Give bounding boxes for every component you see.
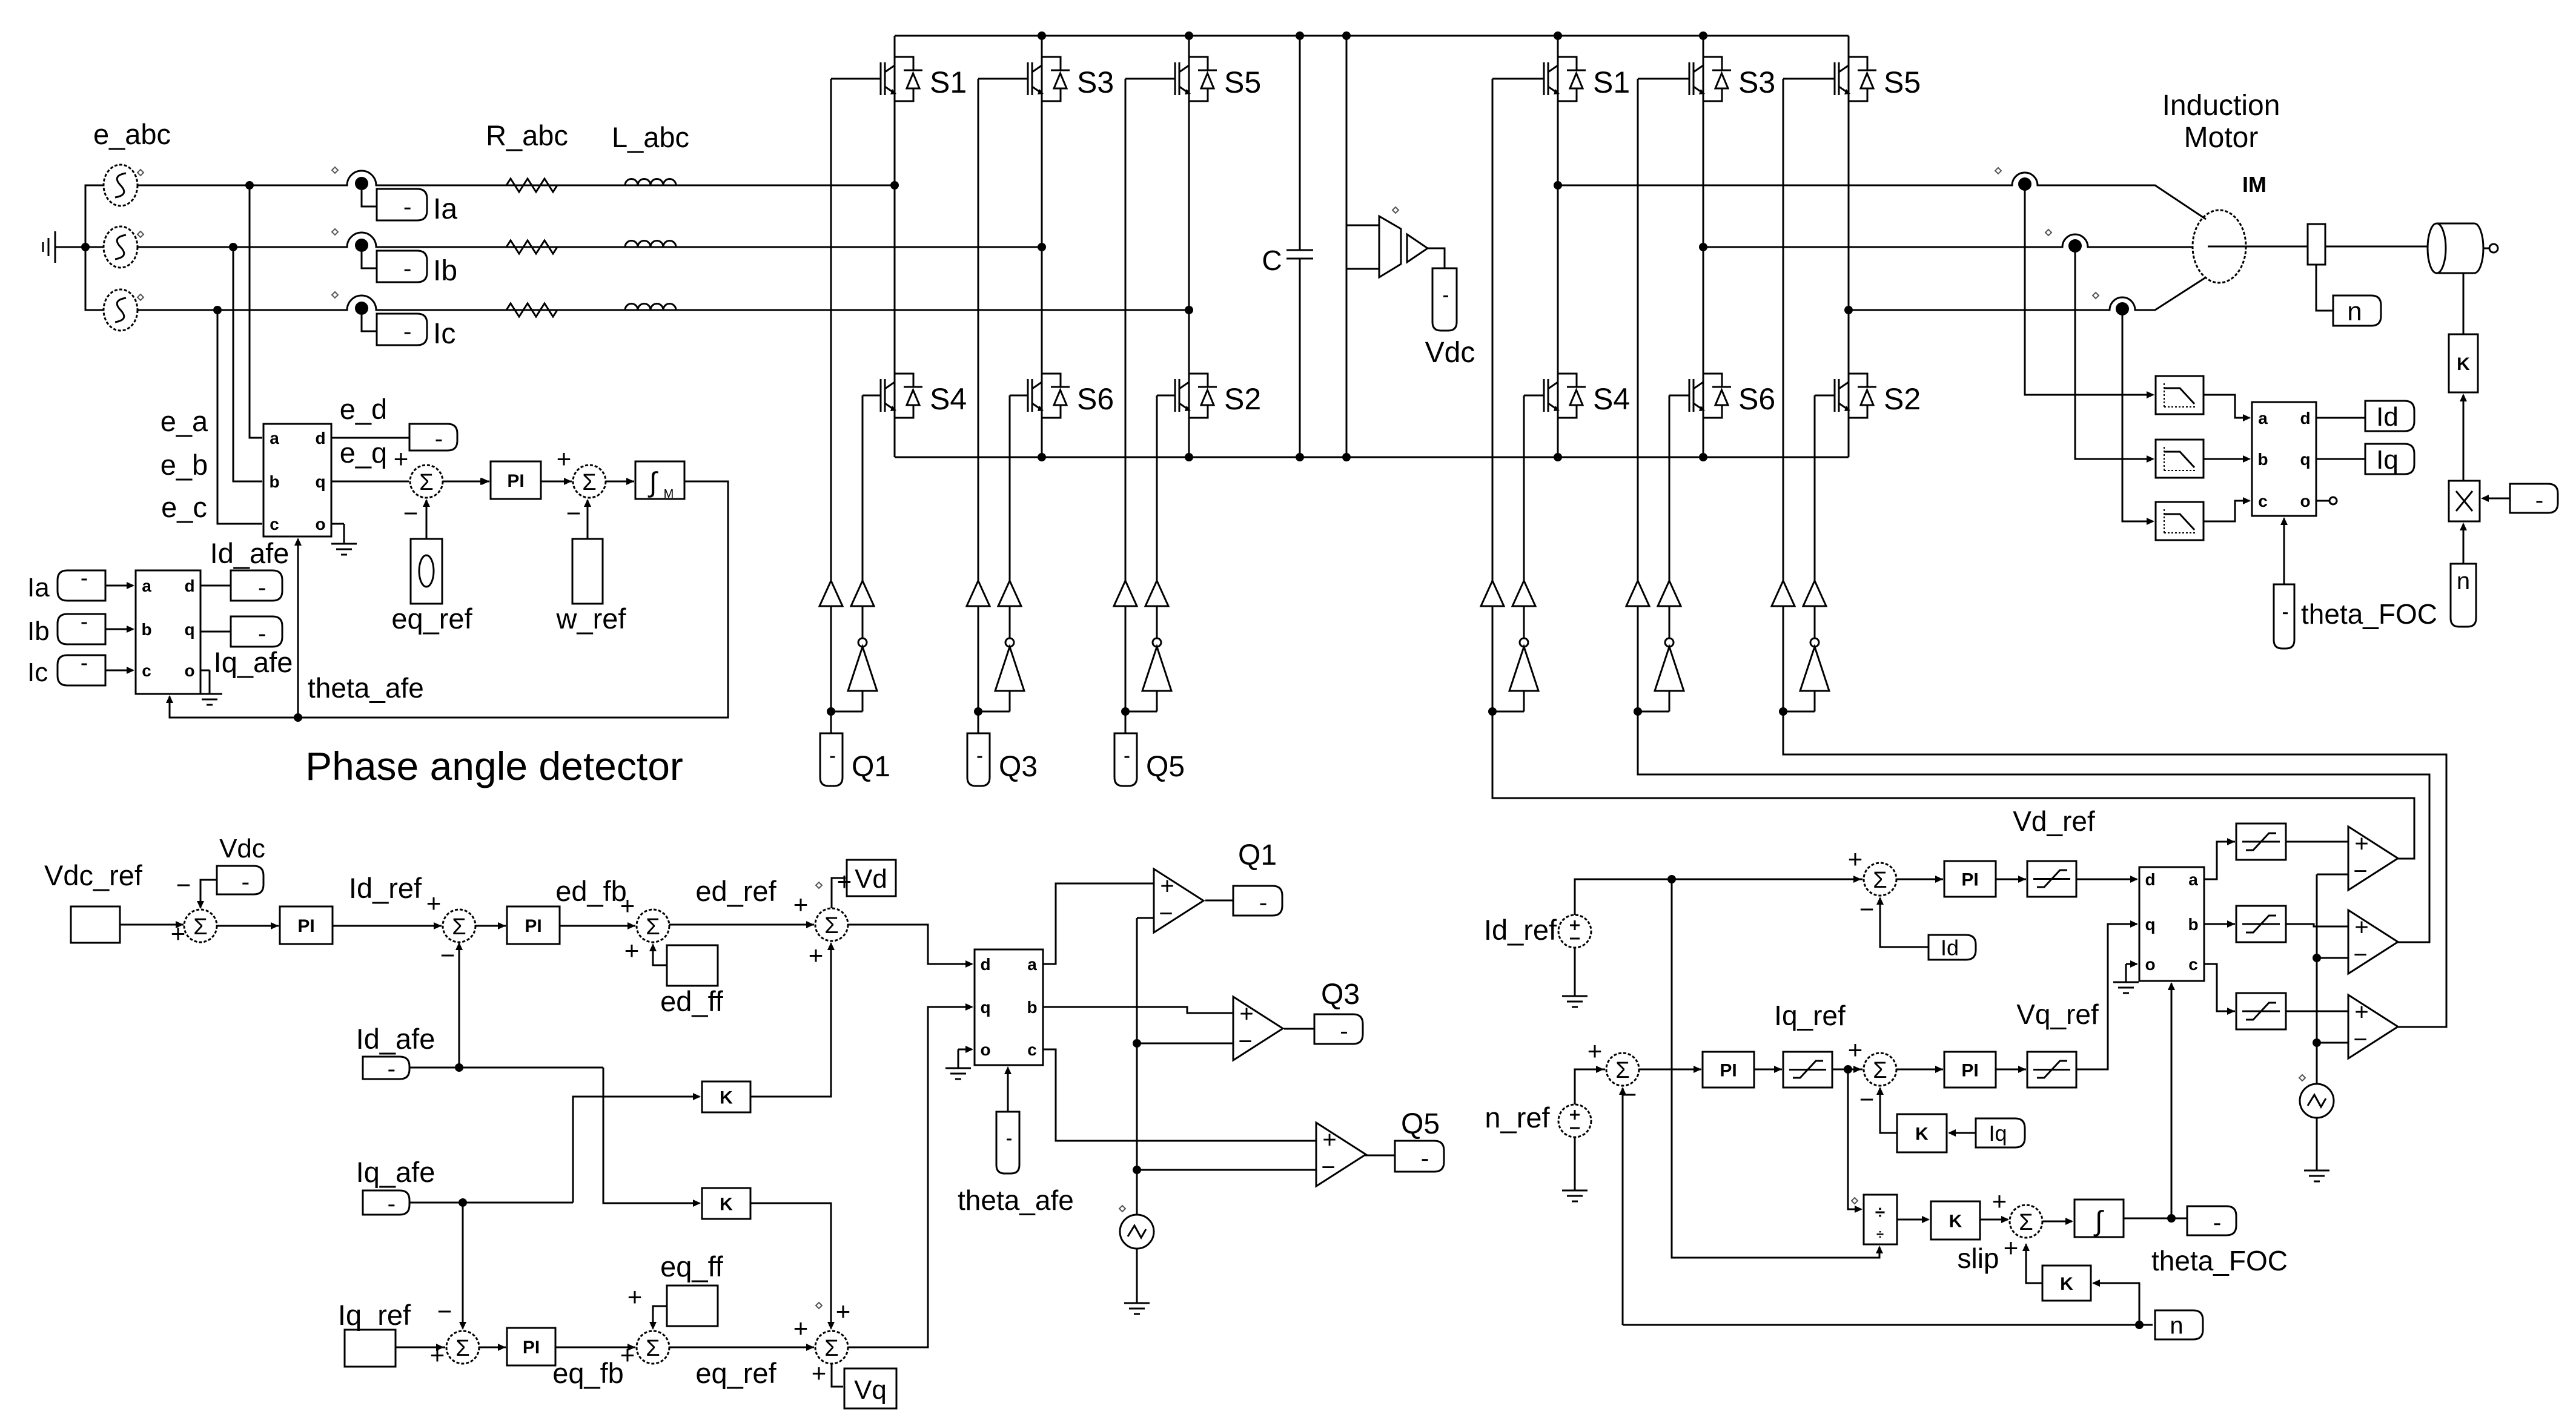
ac source e_b [104, 226, 137, 268]
svg-text:Id_afe: Id_afe [356, 1023, 435, 1055]
wire carrier to comp c [2317, 1042, 2348, 1044]
inverter gate NOT Q3 [995, 638, 1024, 691]
wire AFE leg x1963 [1188, 36, 1190, 457]
svg-text:+: + [1848, 845, 1863, 873]
wire gate drive left lower Q5 [1125, 606, 1127, 711]
current sensor Ib dot [355, 239, 368, 252]
wire inverter gate feedback c [1783, 711, 2446, 1027]
wire shaft to load [2325, 246, 2428, 248]
wire gate drive right Q3 [1009, 395, 1011, 581]
wire sum to PI (speed) [1639, 1069, 1701, 1071]
svg-text:−: − [1859, 1085, 1875, 1114]
svg-text:Id: Id [2376, 402, 2399, 432]
wire limiter to sum (Iq) [1832, 1069, 1862, 1071]
junction top bus x2572 [1554, 31, 1562, 40]
ac source e_c [104, 289, 137, 331]
svg-text:c: c [270, 515, 279, 533]
svg-text:+: + [793, 890, 809, 919]
label Q5 (ctrl) [1401, 1108, 1440, 1140]
mechanical load [2428, 223, 2483, 273]
wire inverter gate feedback a [1492, 711, 2414, 859]
sum junction Vdc [171, 871, 217, 948]
svg-text:S2: S2 [1224, 382, 1261, 416]
wire inv gate node c [1783, 711, 1815, 713]
svg-text:Iq_ref: Iq_ref [338, 1299, 411, 1331]
wire Vdc probe column [1346, 36, 1348, 457]
wire theta_afe feedback [166, 481, 728, 718]
label n_ref [1485, 1101, 1550, 1134]
junction top bus x2812 [1699, 31, 1707, 40]
wire inverter gate feedback b [1638, 711, 2429, 942]
wire theta_FOC to block [2168, 982, 2175, 1218]
arrowhead PI PLL in [482, 478, 489, 485]
sum junction Vd [793, 867, 852, 969]
wire gate node Q1 [831, 711, 863, 713]
svg-text:Σ: Σ [646, 914, 660, 940]
wire dc bus bottom [895, 457, 1849, 458]
inductor L_b [625, 241, 676, 248]
svg-text:÷: ÷ [1875, 1203, 1885, 1223]
wire n to K slip [2092, 1279, 2139, 1325]
svg-text:Id_afe: Id_afe [210, 537, 290, 569]
svg-text:−: − [403, 499, 419, 527]
junction bottom bus x1720 [1038, 453, 1046, 461]
svg-text:÷: ÷ [1876, 1227, 1884, 1242]
inductor L_c [625, 304, 676, 311]
label Ia [27, 573, 50, 602]
svg-text:b: b [2257, 450, 2268, 469]
gate signal source Q3 [967, 733, 990, 786]
svg-text:+: + [620, 891, 635, 920]
gain K (Iq scale) [1897, 1114, 1947, 1152]
wire sum to PI (Vq_ref) [1896, 1069, 1943, 1071]
meter Ic [377, 314, 427, 345]
gain K (poles) [2042, 1266, 2091, 1301]
wire node to tag Q3 [978, 711, 979, 733]
limiter phase c [2236, 993, 2286, 1029]
junction carrier inv b [2313, 954, 2321, 962]
arrowhead limiter a in [2227, 838, 2235, 845]
wire n_ref down [1574, 1137, 1576, 1190]
meter Ia [377, 189, 427, 220]
svg-text:+: + [793, 1314, 809, 1342]
label R_abc [486, 119, 568, 151]
svg-text:L_abc: L_abc [612, 121, 689, 153]
junction top bus x1720 [1038, 31, 1046, 40]
junction bottom bus x1963 [1185, 453, 1193, 461]
wire q out to sum [331, 481, 409, 483]
sum junction PLL 2 [557, 444, 606, 527]
junction theta_afe branch [294, 713, 302, 722]
svg-text:PI: PI [297, 916, 314, 936]
arrowhead sum PLL2 in [564, 478, 572, 485]
arrowhead limiter c in [2227, 1008, 2235, 1015]
ground carrier AFE [1124, 1249, 1150, 1314]
source Iq_ref (afe) [345, 1330, 396, 1367]
svg-text:d: d [2300, 409, 2310, 427]
svg-text:Ic: Ic [27, 658, 48, 687]
svg-text:Iq: Iq [2376, 445, 2399, 475]
svg-text:a: a [142, 576, 151, 595]
label Vd_ref [2013, 805, 2095, 837]
divider block [1864, 1195, 1897, 1244]
junction carrier inv c [2313, 1038, 2321, 1047]
wire gate drive right mid Q5 [1156, 606, 1158, 638]
gain K (wL Id) [702, 1188, 750, 1219]
wire sum to integrator (FOC) [2043, 1218, 2073, 1225]
junction source common [81, 243, 90, 251]
comparator inv a [2348, 827, 2398, 890]
arrowhead PI speed in [1694, 1066, 1701, 1073]
svg-text:theta_FOC: theta_FOC [2151, 1245, 2288, 1276]
svg-text:theta_afe: theta_afe [308, 672, 424, 704]
svg-text:o: o [315, 515, 325, 533]
marker sensor Ib [332, 229, 338, 235]
wire Iq_ref to divider [1848, 1069, 1862, 1213]
svg-text:S6: S6 [1738, 382, 1775, 416]
label Id_ref (FOC) [1484, 914, 1557, 946]
label theta_FOC (bottom) [2151, 1245, 2288, 1276]
junction inv gate node a [1488, 707, 1497, 716]
transistor S5 (AFE) [1175, 57, 1261, 101]
marker divider [1852, 1198, 1858, 1204]
svg-text:Σ: Σ [824, 913, 839, 939]
wire a to limiter [2204, 842, 2235, 879]
wire inv gate lead bottom a [1524, 395, 1544, 397]
junction top bus x2146 [1296, 31, 1304, 40]
junction bottom bus x2572 [1554, 453, 1562, 461]
wire Iq_afe to K1 [573, 1093, 701, 1203]
limiter Iq_ref [1783, 1052, 1832, 1088]
wire sum2 to integrator [606, 481, 634, 483]
wire gate lead top Q1 [831, 78, 881, 80]
meter Iq [2365, 444, 2414, 475]
meter Vdc (ctrl) [217, 866, 263, 894]
svg-text:−: − [2353, 942, 2367, 968]
junction inverter mid b [1699, 243, 1707, 251]
wire inverter leg x3052 [1848, 36, 1850, 457]
wire tap e_c [217, 310, 262, 524]
limiter Vq_ref [2027, 1052, 2076, 1088]
sum junction Vq [793, 1297, 851, 1387]
wire carrier vertical (AFE) [1136, 918, 1138, 1215]
wire probe stub top [1346, 225, 1379, 226]
svg-text:−: − [440, 941, 455, 969]
label Q3 (ctrl) [1321, 979, 1360, 1011]
meter e_d [409, 424, 457, 451]
source ed_ff [667, 945, 718, 986]
svg-text:eq_ref: eq_ref [695, 1357, 776, 1389]
inverter gate NOT Q1 [848, 638, 877, 691]
junction bottom bus x2146 [1296, 453, 1304, 461]
wire limiter a to comp [2286, 841, 2348, 843]
wire K2 to Vq sum [750, 1203, 835, 1330]
svg-text:theta_afe: theta_afe [958, 1184, 1074, 1216]
marker probe [1392, 207, 1399, 213]
svg-text:Id_ref: Id_ref [1484, 914, 1557, 946]
abc-dq transform block (motor) [2252, 402, 2316, 516]
arrowhead limiter Vd_ref in [2018, 876, 2026, 883]
wire probe stub bottom [1346, 268, 1379, 270]
label Iq_ref (FOC) [1774, 1000, 1846, 1031]
wire inv gate node a [1492, 711, 1524, 713]
gain K (torque) [2449, 334, 2478, 392]
transistor S3 (inverter) [1689, 57, 1775, 101]
arrowhead limiter b in [2227, 920, 2235, 928]
wire phase a rail [137, 171, 895, 185]
svg-text:C: C [1262, 245, 1282, 276]
transistor S3 (AFE) [1028, 57, 1114, 101]
controller PI (speed) [1703, 1052, 1754, 1088]
label Ia [433, 193, 457, 225]
svg-text:n: n [2170, 1312, 2183, 1339]
svg-text:a: a [2188, 870, 2198, 889]
label e_d [340, 393, 387, 425]
svg-text:Σ: Σ [582, 470, 597, 495]
label ed_ff [660, 985, 724, 1017]
buffer on-off inv a lower [1512, 581, 1535, 606]
controller PI (Vdc) [280, 906, 333, 944]
label ed_fb [555, 875, 627, 907]
junction rail c tap [213, 306, 222, 314]
svg-text:+: + [627, 1282, 643, 1311]
svg-text:a: a [2258, 409, 2268, 427]
buffer on-off Q1 upper [819, 581, 843, 606]
capacitor C [1286, 36, 1313, 457]
junction Id_ref branch [1667, 875, 1676, 883]
svg-text:Σ: Σ [646, 1336, 660, 1361]
svg-text:K: K [2457, 354, 2470, 374]
arrowhead PI Vq_ref in [1935, 1066, 1943, 1073]
resistor R_c [506, 303, 557, 317]
svg-text:Σ: Σ [193, 914, 208, 940]
motor current sensor a dot [2018, 177, 2031, 191]
svg-text:S5: S5 [1884, 65, 1921, 99]
wire dc bus top [895, 35, 1849, 37]
junction inverter mid c [1844, 306, 1853, 314]
wire Id meter to sum [1876, 897, 1929, 947]
label eq_ff [660, 1250, 724, 1282]
arrowhead sum Iq in [436, 1344, 444, 1351]
svg-text:Vq_ref: Vq_ref [2016, 999, 2099, 1030]
wire sum to PI (Iq) [479, 1347, 506, 1348]
svg-text:+: + [1588, 1037, 1603, 1065]
svg-text:PI: PI [507, 471, 524, 491]
wire sum to PI (Vdc) [216, 925, 279, 927]
wire comp to Q1 tag [1205, 900, 1233, 902]
sum junction eq [620, 1282, 669, 1369]
svg-text:eq_ref: eq_ref [391, 602, 472, 635]
wire gate drive right Q1 [862, 395, 864, 581]
wire Id_ref to divider [1672, 879, 1883, 1258]
svg-text:ed_fb: ed_fb [555, 875, 627, 907]
wire inv gate lead top c [1783, 78, 1835, 80]
wire gate drive left Q5 [1125, 79, 1127, 581]
label eq_ref [391, 602, 472, 635]
wire inv gate right b [1669, 395, 1670, 581]
wire sum to PI (Id) [475, 925, 506, 927]
junction bottom bus x2812 [1699, 453, 1707, 461]
wire Vdc_ref to sum [120, 924, 184, 926]
label theta_FOC (top) [2301, 598, 2437, 630]
comparator inv b [2348, 910, 2398, 974]
svg-text:+: + [624, 936, 640, 965]
svg-text:Ia: Ia [433, 193, 457, 225]
svg-text:Ic: Ic [433, 318, 455, 350]
motor current sensor b dot [2068, 239, 2082, 253]
svg-text:K: K [720, 1088, 733, 1107]
svg-text:Vdc_ref: Vdc_ref [44, 859, 143, 891]
wire source common left [85, 185, 104, 310]
ground currents block o [197, 670, 222, 705]
svg-text:+: + [2004, 1233, 2019, 1262]
marker sensor Ia [332, 167, 338, 173]
svg-text:Q5: Q5 [1146, 751, 1185, 783]
wire theta_afe to block [1004, 1066, 1012, 1112]
svg-text:+: + [812, 1359, 827, 1387]
wire inv gate right lower a [1523, 691, 1525, 711]
wire PI to limiter (speed) [1754, 1069, 1782, 1071]
gate signal meter Q1 [1233, 886, 1282, 916]
label Motor [2184, 122, 2259, 154]
wire limiter b to comp [2286, 924, 2348, 926]
label Q3 [999, 751, 1038, 783]
wire phase b rail [137, 233, 1042, 247]
buffer on-off inv a upper [1481, 581, 1504, 606]
svg-text:q: q [980, 998, 990, 1017]
arrowhead PI Vdc in [271, 922, 279, 929]
integrator (FOC) [2074, 1200, 2124, 1237]
wire gate drive right mid Q1 [862, 606, 864, 638]
source Ib [58, 614, 105, 644]
marker e_a plus [137, 170, 144, 176]
wire gate drive right lower Q1 [862, 691, 864, 711]
source eq_ff [667, 1286, 718, 1326]
sum junction slip [1992, 1187, 2042, 1262]
svg-text:Vdc: Vdc [219, 834, 265, 863]
label IM [2242, 172, 2266, 197]
svg-text:+: + [809, 941, 824, 969]
wire lpf c out [2204, 497, 2251, 521]
sum junction ed [620, 891, 669, 965]
wire Id_ref down [1574, 948, 1576, 996]
svg-text:Σ: Σ [1873, 1058, 1887, 1083]
limiter Vd_ref [2027, 861, 2076, 897]
svg-text:eq_fb: eq_fb [552, 1357, 624, 1389]
wire load to K block [2463, 273, 2465, 334]
arrowhead limiter Vq_ref in [2018, 1066, 2026, 1073]
resistor R_a [506, 179, 557, 192]
wire motor shaft [2208, 246, 2308, 248]
label Ic [433, 318, 455, 350]
label e_q [340, 437, 387, 469]
wire speed sensor to n meter [2316, 265, 2333, 311]
svg-text:Ib: Ib [433, 255, 457, 287]
svg-text:b: b [1027, 998, 1037, 1017]
wire gate drive right mid Q3 [1009, 606, 1011, 638]
junction AFE mid a [890, 181, 899, 190]
wire inv gate left lower b [1637, 606, 1639, 711]
buffer on-off inv c lower [1803, 581, 1826, 606]
wire source b left stub [85, 246, 104, 248]
label Q1 [852, 751, 890, 783]
svg-text:ed_ff: ed_ff [660, 985, 724, 1017]
svg-text:Vq: Vq [854, 1375, 887, 1405]
wire a to comparator Q1 [1043, 883, 1154, 964]
ground FOC block o [2113, 964, 2139, 993]
marker carrier inv [2299, 1075, 2305, 1081]
marker motor sensor a [1995, 168, 2001, 174]
wire n_ref up [1575, 1069, 1605, 1104]
wire PI to sum2 (PLL) [541, 481, 572, 483]
wire inv gate right a [1523, 395, 1525, 581]
arrowhead PI Iq in [498, 1344, 506, 1351]
wire d out to e_d meter [331, 437, 409, 439]
multiplier X [2449, 481, 2480, 521]
transistor S6 (inverter) [1689, 374, 1775, 418]
wire inv gate right c [1814, 395, 1816, 581]
svg-text:theta_FOC: theta_FOC [2301, 598, 2437, 630]
wire AFE leg x1477 [894, 36, 896, 457]
label Id_afe (ctrl) [356, 1023, 435, 1055]
wire comp to Q3 tag [1284, 1028, 1314, 1030]
arrowhead Vd sum in [806, 921, 814, 928]
inverter gate NOT inv c [1800, 638, 1829, 691]
node o terminal [2329, 497, 2337, 504]
junction carrier Q5 [1133, 1166, 1141, 1174]
svg-text:eq_ff: eq_ff [660, 1250, 724, 1282]
wire Vq to block q [848, 1003, 973, 1347]
meter Id [2365, 401, 2414, 432]
svg-text:Id: Id [1941, 935, 1959, 960]
svg-text:d: d [2145, 870, 2155, 889]
wire o stub currents [200, 670, 210, 672]
transistor S6 (AFE) [1028, 374, 1114, 418]
svg-text:b: b [141, 620, 151, 639]
arrowhead sum PLL1 in [480, 478, 488, 485]
svg-text:S3: S3 [1738, 65, 1775, 99]
wire Vq sum to meter [832, 1364, 843, 1387]
wire inv gate node b [1638, 711, 1669, 713]
wire inv gate lead bottom b [1669, 395, 1689, 397]
wire inv gate left lower c [1783, 606, 1784, 711]
wire K to slip sum bottom [2022, 1243, 2042, 1283]
transistor S2 (AFE) [1175, 374, 1261, 418]
source theta_afe (mod) [996, 1112, 1019, 1173]
svg-text:Iq_afe: Iq_afe [356, 1156, 435, 1188]
wire Vd sum to meter [832, 878, 846, 908]
svg-text:c: c [2258, 492, 2268, 510]
wire inv gate right mid a [1523, 606, 1525, 638]
junction inv gate node c [1779, 707, 1787, 716]
svg-text:Q5: Q5 [1401, 1108, 1440, 1140]
wire carrier to comp b [2317, 957, 2348, 959]
wire carrier to Q3 comp [1137, 1043, 1233, 1045]
wire q to Iq_afe [200, 631, 231, 633]
sum junction Id_afe [426, 889, 475, 969]
buffer on-off inv b lower [1658, 581, 1681, 606]
svg-text:S1: S1 [1593, 65, 1630, 99]
ground source neutral [43, 231, 85, 263]
svg-text:PI: PI [1720, 1060, 1737, 1080]
wire gate drive left Q3 [978, 79, 979, 581]
source n_ref DC [1558, 1104, 1591, 1137]
abc-dq transform block (PLL) [263, 424, 331, 536]
junction top bus x2223 [1342, 31, 1351, 40]
svg-text:q: q [184, 620, 194, 639]
comparator Q3 [1233, 997, 1283, 1060]
junction bottom bus x2223 [1342, 453, 1351, 461]
